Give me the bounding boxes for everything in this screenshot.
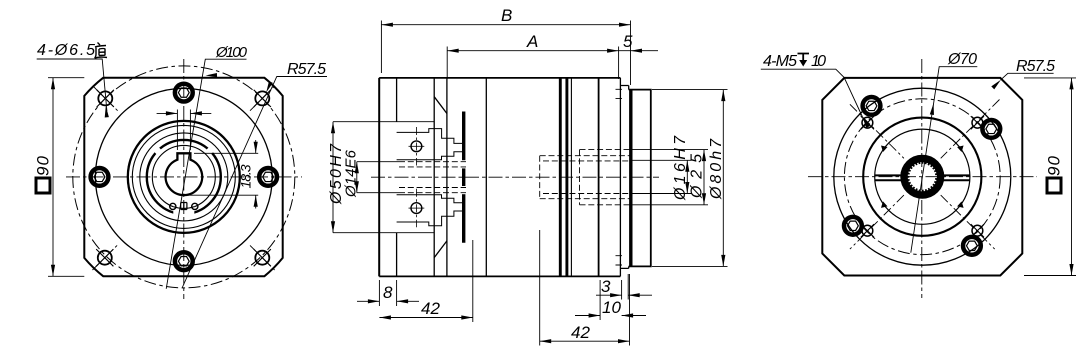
tab triangle top-left xyxy=(881,146,888,153)
18.3 label (rotated) xyxy=(238,164,254,188)
output flange back face xyxy=(619,78,621,277)
O16H7 ext lines xyxy=(632,160,692,193)
housing top edge xyxy=(379,77,620,79)
keyway width dim line with outside arrows xyxy=(157,112,212,114)
boss circle xyxy=(863,118,981,236)
18.3 dim: extension lines xyxy=(187,153,258,195)
hex screw E xyxy=(259,168,277,186)
tab triangle bottom-right xyxy=(957,201,964,208)
O14E6 ext lines xyxy=(357,162,399,193)
dim 42 left line xyxy=(379,317,472,319)
clamp screw upper xyxy=(411,141,422,152)
18.3 dim line with outside arrows xyxy=(255,140,257,209)
M5 hole section ticks top xyxy=(616,89,623,98)
depth symbol xyxy=(798,54,810,61)
svg-text:18.3: 18.3 xyxy=(238,164,254,188)
bore O16H7 with keyway xyxy=(166,153,203,195)
bolt circle O100 (dash-dot) xyxy=(73,66,295,288)
tap hole M5 BR xyxy=(971,224,984,237)
dim 10 line xyxy=(575,315,646,317)
svg-text:Ø70: Ø70 xyxy=(947,51,977,68)
output ring step xyxy=(620,86,628,269)
leader O100 (through view) xyxy=(166,59,246,289)
svg-text:4-M5: 4-M5 xyxy=(763,53,797,70)
svg-text:4-Ø6.5: 4-Ø6.5 xyxy=(37,42,95,59)
input flange front face xyxy=(378,78,380,277)
thick joint band xyxy=(462,112,465,243)
square 90 dimension left: extension lines xyxy=(48,78,84,277)
leader 4-M5 xyxy=(761,69,863,117)
boss circle O50H7 outer xyxy=(128,121,240,233)
output face dark band xyxy=(629,91,632,266)
keyway width dim: extension lines xyxy=(177,110,190,151)
O25 ext lines xyxy=(632,150,708,205)
clamp hub outline upper xyxy=(397,129,464,160)
label O80h7 rotated xyxy=(708,138,725,200)
cover chamfer bottom xyxy=(434,241,447,258)
hex screw TL xyxy=(863,97,881,115)
circlip lug center marker xyxy=(181,203,187,210)
svg-text:5: 5 xyxy=(623,32,633,51)
svg-text:Ø80h7: Ø80h7 xyxy=(708,138,725,200)
square 90 dim right ext lines xyxy=(1024,78,1076,276)
dim B ext lines xyxy=(381,21,630,86)
label O16H7 rotated xyxy=(672,135,689,201)
hex screw TR xyxy=(982,120,1000,138)
hex screw BR xyxy=(963,237,981,255)
dim 3 ext lines xyxy=(622,274,629,300)
tap hole M5 BL xyxy=(861,224,874,237)
svg-text:Ø25: Ø25 xyxy=(689,154,706,199)
ring gear front edge xyxy=(446,78,448,277)
O80h7 ext lines xyxy=(652,90,728,267)
dim 8 line xyxy=(357,300,419,302)
dark ring groove line 2 xyxy=(565,78,568,277)
right view vertical centerline xyxy=(921,59,923,298)
hex screw S xyxy=(175,252,193,270)
circle inner step xyxy=(132,125,235,228)
circlip top gaps xyxy=(153,146,162,155)
hidden clamp bore O14 dashes xyxy=(399,162,466,193)
horizontal centerline xyxy=(66,176,302,178)
dim 3 line xyxy=(596,294,652,296)
slot bars right xyxy=(943,175,970,180)
svg-text:10: 10 xyxy=(811,53,826,70)
dim A ext line xyxy=(447,47,618,80)
svg-text:R57.5: R57.5 xyxy=(287,61,326,78)
retaining ring inner circle xyxy=(152,145,215,208)
retaining ring heavy circle xyxy=(147,140,221,214)
input spline black ring xyxy=(905,159,940,194)
M5 hole section ticks bottom xyxy=(616,256,623,265)
tab triangle bottom-left xyxy=(881,201,888,208)
vertical centerline xyxy=(183,59,185,299)
tap diagonal centerlines xyxy=(850,100,1000,250)
O25 dim line xyxy=(703,150,705,205)
square 90 dimension line xyxy=(52,78,54,277)
svg-text:10: 10 xyxy=(602,298,621,317)
leader O70 (through view) xyxy=(911,67,978,253)
dim 42 left ext line xyxy=(472,240,474,322)
leader 4-O6.5 xyxy=(37,59,107,111)
hidden counterbore O25 dashes xyxy=(580,150,631,205)
dim 10 ext line xyxy=(599,280,601,320)
cover chamfer top xyxy=(434,97,447,114)
spline teeth xyxy=(909,163,936,190)
flange outline: square 90 chamfered corners xyxy=(822,78,1022,276)
rear cover circle xyxy=(834,88,1011,265)
cover joint line xyxy=(433,78,435,277)
leader R57.5 right xyxy=(1001,73,1054,80)
inner circle xyxy=(875,129,970,224)
O80h7 dim line xyxy=(722,90,724,267)
clamp screw lower xyxy=(411,203,422,214)
circlip bottom gap white-out xyxy=(173,204,194,216)
output boss O80h7 xyxy=(629,90,651,267)
svg-text:90: 90 xyxy=(1045,155,1064,176)
flange back face edge xyxy=(396,78,398,277)
dim B line xyxy=(381,24,630,26)
leader R57.5 (through view) xyxy=(182,77,327,288)
circlip lug holes xyxy=(170,203,176,209)
O50H7 dim line xyxy=(332,122,334,233)
svg-text:Ø16H7: Ø16H7 xyxy=(672,135,689,201)
svg-text:Ø100: Ø100 xyxy=(215,44,248,61)
hanzi tong (through) glyph xyxy=(95,43,108,59)
hex screw BL xyxy=(844,217,862,235)
svg-text:R57.5: R57.5 xyxy=(1016,58,1055,75)
housing bottom edge xyxy=(379,275,620,277)
dim 8 ext lines xyxy=(379,280,396,306)
svg-text:42: 42 xyxy=(421,299,440,318)
label O25 rotated xyxy=(689,154,706,199)
O16H7 dim line xyxy=(686,160,688,193)
svg-text:3: 3 xyxy=(601,277,611,296)
bearing circle xyxy=(140,133,228,221)
tap hole M5 TR xyxy=(971,116,984,129)
O14E6 dim line xyxy=(356,162,358,193)
svg-text:8: 8 xyxy=(383,283,393,302)
front cover circle xyxy=(95,88,272,265)
svg-text:B: B xyxy=(501,6,512,25)
label square 90 right (rotated) xyxy=(1045,155,1064,193)
bolt circle O70 dash-dot xyxy=(844,99,1000,255)
right view horizontal centerline xyxy=(808,176,1037,178)
svg-text:A: A xyxy=(526,32,538,51)
dim 42 right ext lines xyxy=(540,230,630,346)
body joint line xyxy=(485,78,487,277)
svg-text:90: 90 xyxy=(34,155,53,176)
tap hole M5 TL xyxy=(861,116,874,129)
hex screw N xyxy=(175,84,193,102)
corner hole diagonal centerlines xyxy=(93,86,275,270)
corner hole bottom-right xyxy=(254,249,271,266)
svg-text:42: 42 xyxy=(571,323,590,342)
dim 5 line outside arrow xyxy=(619,50,658,52)
clamp hub outline lower xyxy=(397,195,464,226)
square 90 label (rotated) xyxy=(34,155,53,193)
retaining ring inner arc redraw xyxy=(173,207,194,209)
dim A line xyxy=(447,50,618,52)
corner hole 4-O6.5 top-left xyxy=(97,90,114,107)
hex screw W xyxy=(91,168,109,186)
slot bars left xyxy=(875,175,902,180)
dim 42 right line xyxy=(540,340,630,342)
hidden bore step dashes xyxy=(540,156,631,199)
tab triangle top-right xyxy=(957,146,964,153)
output flange front face xyxy=(598,78,600,277)
svg-text:Ø14E6: Ø14E6 xyxy=(343,149,360,198)
joint line after groove xyxy=(570,78,572,277)
label O50H7 rotated xyxy=(328,143,345,205)
O50H7 bore top line + ext xyxy=(333,122,434,233)
corner hole top-right xyxy=(254,90,271,107)
flange outline: square 90 with R57.5 corner arcs xyxy=(84,78,282,277)
middle centerline xyxy=(371,176,659,178)
dark ring groove line 1 xyxy=(559,78,562,277)
label O14E6 rotated xyxy=(343,149,360,198)
corner hole bottom-left xyxy=(96,249,113,266)
hidden output bore O16 dashes xyxy=(543,161,631,194)
square 90 dim line right xyxy=(1071,78,1073,276)
